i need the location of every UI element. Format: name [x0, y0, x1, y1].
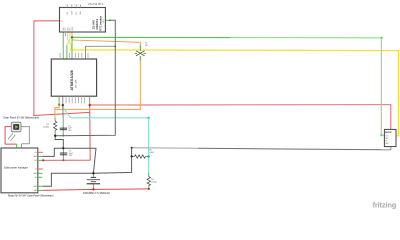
wire green dot leg to ATMEGA [71, 37, 73, 59]
svg-text:+5v: +5v [34, 169, 37, 171]
manager top pin stubs [16, 144, 18, 148]
resistor R5 with stubs [132, 155, 134, 157]
capacitor C3 [60, 152, 67, 155]
wire black ground bus manager ext to R5 corner [42, 148, 131, 187]
node battery plus junction [92, 172, 94, 174]
ATMEGA bottom stubs [66, 96, 85, 103]
wire gray pin to C1 [62, 105, 64, 117]
node green bend at DHT22 left [380, 134, 382, 136]
resistor R1 [54, 120, 57, 131]
wire green RTC pin1 to ATMEGA [62, 32, 64, 59]
wire orange diode bottom to ATMEGA pin [55, 56, 140, 109]
svg-text:ICR18650 3.7v 6600mAh: ICR18650 3.7v 6600mAh [83, 192, 111, 195]
wire orange ATMEGA pin jog to R1 [55, 105, 59, 118]
node R1 bottom junction [54, 135, 56, 137]
wire green long segment B to DHT22 [230, 38, 385, 136]
wire green C1 vertical [62, 118, 64, 136]
node ATMEGA pin orange junction [58, 104, 60, 106]
svg-text:2W: 2W [145, 45, 148, 47]
wire gray R5 corner to mid [132, 147, 198, 150]
wire VCC red from RTC P1 down left side [34, 21, 90, 116]
wire gray RTC GND stub green [105, 19, 110, 21]
node cyan bendpoint [148, 117, 150, 119]
node C3 top junction [62, 147, 64, 149]
wire red battery bus to R4 [42, 189, 148, 191]
svg-text:Modul für 9V-24V Solar Panel (: Modul für 9V-24V Solar Panel (Allowshare… [8, 195, 54, 198]
wire black 148 bus manager to battery [42, 148, 96, 173]
svg-text:SQW: SQW [72, 10, 74, 14]
wire green long segment A [72, 36, 230, 38]
diode D2 pin stubs [139, 45, 141, 51]
wire green stub DHT22 GND [390, 147, 392, 150]
svg-text:ZS-042 RTC: ZS-042 RTC [88, 3, 104, 6]
wire red vertical ATMEGA to solar manager 3v3 [42, 105, 90, 160]
wire cyan ATMEGA to R5 junction [63, 105, 149, 173]
wire gray branch to ATMEGA GND pin [86, 46, 116, 59]
node R5 corner tee [131, 147, 133, 149]
RTC top pin stubs [67, 4, 80, 7]
node R5 right junction [147, 155, 149, 157]
diode D2 [135, 51, 146, 56]
ATMEGA top gray stubs [60, 53, 88, 59]
svg-text:1: 1 [65, 5, 66, 7]
wire green R1 stubs [54, 118, 56, 121]
svg-text:ATMEGA328: ATMEGA328 [70, 70, 74, 90]
RTC module ZS-042 [60, 8, 106, 33]
wire green cyan tail to R4 [148, 173, 150, 176]
wire gray mid to DHT22 GND [198, 148, 391, 150]
wire yellow long to DHT22 data [71, 50, 398, 136]
svg-text:Solar power manager: Solar power manager [4, 167, 28, 170]
node RTC SQW green junction [71, 36, 73, 38]
RTC bottom pin labels [63, 26, 74, 30]
svg-text:SCL: SCL [76, 12, 78, 15]
wire gray solar panel minus [21, 127, 30, 144]
svg-text:Solar Panel 6V 5W (Waveshare): Solar Panel 6V 5W (Waveshare) [3, 117, 39, 120]
IC ATMEGA328 [51, 59, 96, 96]
svg-text:10kΩ: 10kΩ [149, 152, 154, 154]
node ATMEGA VCC red junction [89, 104, 91, 106]
battery B1 [92, 173, 94, 177]
sensor DHT22 [384, 129, 396, 146]
svg-text:3v3: 3v3 [34, 160, 37, 162]
RTC bottom gray stub [64, 32, 66, 36]
node RTC GND bend [109, 19, 111, 21]
solar power manager module [1, 148, 38, 193]
svg-text:100kΩ: 100kΩ [43, 126, 49, 128]
node GND tee [114, 45, 116, 47]
svg-text:+5v: +5v [34, 152, 37, 154]
node R5 left junction [131, 155, 133, 157]
resistor R4 with stub [147, 176, 150, 187]
node ATMEGA pin dark junction [62, 104, 64, 106]
wire yellow SDA cross [68, 32, 72, 50]
svg-text:fritzing: fritzing [373, 201, 397, 210]
wire orange RTC SQW to diode top [72, 32, 140, 51]
node battery minus junction [92, 188, 94, 190]
wire yellow SCL cross short [67, 32, 70, 45]
wire red long to DHT22 VCC [90, 105, 391, 130]
node C3 bottom junction [62, 159, 64, 161]
svg-text:DS3231: DS3231 [95, 19, 99, 30]
wire red solar panel plus [5, 127, 17, 145]
svg-text:SCL: SCL [70, 28, 72, 31]
node C1 bottom junction [62, 135, 64, 137]
svg-text:-AU TQFP: -AU TQFP [75, 79, 78, 89]
svg-text:SQW: SQW [72, 26, 74, 30]
junction dots [381, 37, 383, 39]
svg-text:RTC module: RTC module [100, 15, 103, 30]
node yellow bendpoint [70, 49, 72, 51]
node manager 3v3 pin dot [42, 159, 44, 161]
svg-text:100kΩ: 100kΩ [151, 182, 157, 184]
wire gray RTC GND down and left to R1 node [55, 20, 115, 135]
svg-text:DHT22: DHT22 [385, 132, 392, 134]
wire green C3 vertical [62, 148, 64, 160]
wire black step R1 node to 148 bus [55, 136, 63, 149]
manager right pin stubs [38, 152, 43, 190]
svg-text:P1: P1 [60, 21, 62, 23]
capacitor C1 [60, 127, 67, 130]
node R4 bottom junction [148, 188, 150, 190]
wire green X leg to ATMEGA [66, 45, 68, 59]
